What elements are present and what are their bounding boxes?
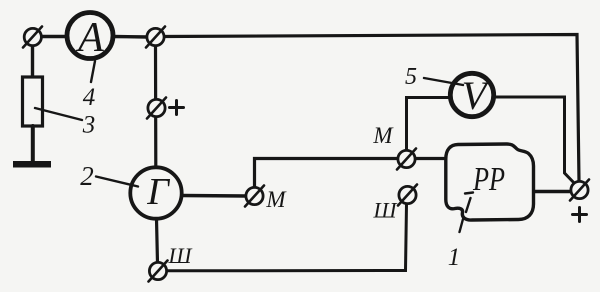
wire M2 to PP box: [416, 157, 447, 160]
svg-text:Ш: Ш: [373, 198, 398, 223]
voltmeter 5: [450, 73, 493, 116]
svg-text:РР: РР: [472, 161, 505, 198]
resistor 3: [23, 77, 43, 126]
wire M2 up to voltmeter: [407, 98, 451, 151]
ammeter 4: [67, 13, 113, 59]
wire PP to + terminal: [534, 190, 570, 193]
wire ammeter to T2: [113, 35, 148, 39]
svg-text:М: М: [372, 123, 394, 148]
terminal Sh1 of generator: [149, 261, 168, 282]
leader line of label 2: [96, 177, 138, 187]
wire M1 up and right to M2: [255, 159, 399, 188]
wire resistor to ground: [31, 126, 35, 161]
wire T2 down through + terminal to generator: [154, 46, 158, 169]
svg-text:А: А: [75, 15, 104, 61]
svg-text:Ш: Ш: [168, 243, 193, 268]
leader line of label 5: [424, 78, 463, 85]
svg-text:4: 4: [83, 84, 96, 111]
wire T1 to ammeter: [40, 35, 67, 38]
terminal T2: [146, 27, 165, 48]
terminal Sh2 of PP: [398, 185, 417, 206]
wire generator to M1 terminal: [182, 194, 247, 198]
wire voltmeter right down to + terminal: [494, 97, 577, 186]
plus sign at generator terminal: [170, 101, 184, 115]
wire top rail from T2 to + terminal: [163, 35, 579, 182]
wire T1 down to resistor: [31, 45, 34, 78]
svg-text:1: 1: [448, 244, 461, 271]
terminal T1: [23, 27, 42, 48]
svg-text:5: 5: [405, 64, 417, 90]
ground: [13, 161, 51, 168]
generator G circle: [130, 167, 181, 218]
svg-text:3: 3: [82, 112, 96, 139]
dash-dot leader of label 1: [460, 193, 474, 233]
terminal M1: [245, 186, 264, 207]
wire generator down to Sh1: [157, 219, 158, 263]
wire Sh2 down to bottom rail: [167, 204, 407, 271]
svg-text:Г: Г: [146, 171, 170, 213]
leader line of label 4: [91, 61, 95, 82]
terminal + battery: [570, 180, 589, 201]
plus sign at battery terminal: [573, 208, 587, 222]
svg-text:М: М: [265, 187, 287, 212]
leader line of label 3: [35, 108, 82, 120]
relay-regulator PP box: [446, 144, 534, 220]
terminal + of generator: [147, 98, 166, 119]
svg-text:2: 2: [80, 161, 94, 191]
terminal M2: [397, 149, 416, 170]
